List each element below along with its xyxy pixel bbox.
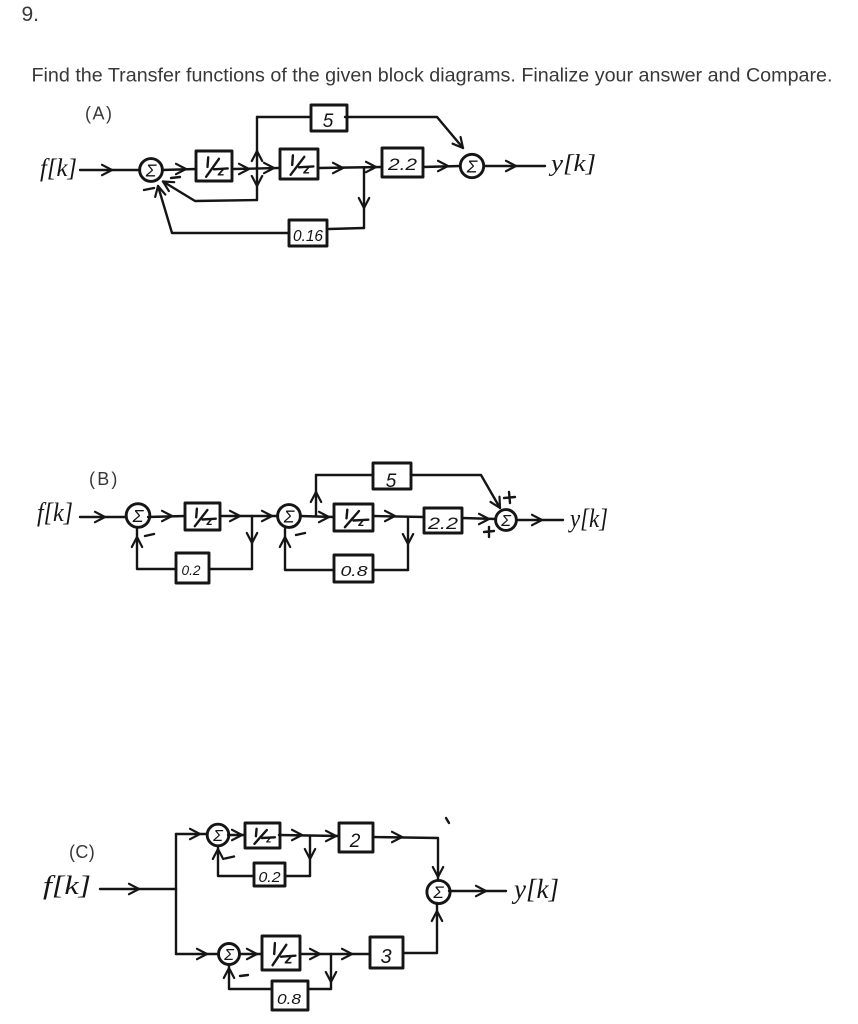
svg-text:z: z [302,160,310,176]
wire block1 to block2 with node A [233,163,279,174]
branch vertical trunk [175,834,177,954]
summing junction B S2 [278,505,301,528]
wire node E to block 0.8 [373,569,408,571]
minus sign 0.16 loop [144,188,154,190]
svg-text:3: 3 [380,946,391,968]
svg-text:Σ: Σ [500,513,512,530]
wire node B down to block 0.16 [329,228,364,229]
small pen mark [446,818,449,823]
wire block 2.2 to sum A2 [423,161,460,171]
block C 3 [370,937,403,968]
summing junction C S mid [427,880,450,903]
svg-text:y[k]: y[k] [549,151,596,177]
branch vertical at node A (up to 5, down to feedback) [252,117,262,200]
block B 0.2 [176,553,209,583]
branch vertical at node D up to 5 [311,475,321,516]
wire branch to block 5 B [316,474,373,476]
svg-text:Σ: Σ [212,828,224,845]
svg-text:Σ: Σ [432,883,444,902]
svg-text:Σ: Σ [466,156,478,176]
svg-text:Find the Transfer functions of: Find the Transfer functions of the given… [32,65,833,87]
wire node C to block 0.2 [209,568,252,570]
wire input to branch point [100,884,176,894]
svg-text:Σ: Σ [145,160,157,180]
block B 1/z #2 [334,504,373,531]
svg-text:(A): (A) [85,104,114,124]
svg-text:z: z [217,162,225,178]
svg-text:0.8: 0.8 [341,563,369,580]
svg-text:z: z [205,514,213,528]
wire trunk bottom to sum C2 [176,949,218,959]
wire sum C2 to block 1/z bottom [240,949,262,959]
wire input to sum B1 [80,512,126,522]
feedback wire short loop to sum A1 [160,177,257,201]
summing junction A S2 [460,154,483,177]
wire sum B3 to output [518,515,563,525]
svg-text:0.16: 0.16 [293,228,323,245]
feedback C top: node F down [305,836,315,876]
summing junction B S3 [496,510,517,531]
svg-text:2: 2 [349,831,361,852]
svg-text:Σ: Σ [223,947,235,964]
block B 1/z #1 [185,503,220,530]
minus sign short loop [171,177,180,178]
svg-text:f[k]: f[k] [40,155,77,182]
wire block to 2 with node F [279,830,339,841]
wire sum B1 to block 1/z #1 [148,511,185,521]
svg-text:5: 5 [323,111,334,132]
svg-text:2.2: 2.2 [387,155,418,174]
svg-text:y[k]: y[k] [511,874,559,904]
wire block 2.2 to sum B3 [462,514,496,524]
wire block 3 up to sum mid bottom [403,903,442,953]
block C 1/z top [245,823,280,848]
feedback wire 0.16 to sum A1 bottom [153,185,289,233]
feedback B loop1: node C down to 0.2 [247,516,257,569]
block B 5 [373,463,411,492]
plus sign top of sum B3 [504,492,515,503]
block A 2.2 [382,148,423,177]
block B 2.2 [424,508,462,533]
wire node G to block 0.8 C [308,988,331,990]
wire block5 to sum A2 top [345,117,467,151]
summing junction B S1 [126,504,150,528]
wire node F to block 0.2 C [285,875,310,877]
svg-text:(C): (C) [69,842,95,862]
feedback wire 0.8 to sum C2 bottom [224,965,272,989]
summing junction C S1 [207,824,229,846]
svg-text:0.8: 0.8 [277,991,302,1008]
block A 1/z #1 [196,151,232,181]
svg-text:z: z [357,515,365,529]
feedback wire 0.8 to sum B2 bottom [280,529,334,570]
minus sign 0.2 loop [145,534,154,536]
feedback wire 0.2 to sum B1 bottom [132,529,176,569]
block C 2 [339,823,373,852]
block C 0.2 [254,863,285,886]
branch vertical at node B down [359,168,369,228]
wire branch top to block 5 [257,116,311,118]
block A 0.16 [289,220,327,246]
wire sum A1 to block 1/z #1 [162,164,196,174]
wire sum C1 to block 1/z top [228,830,245,840]
svg-text:9.: 9. [22,3,40,26]
minus sign C top loop [225,857,234,859]
svg-text:Σ: Σ [132,506,145,526]
block C 1/z bottom [262,936,300,970]
svg-text:0.2: 0.2 [259,869,282,886]
svg-text:z: z [265,834,272,846]
svg-text:2.2: 2.2 [427,514,459,533]
svg-text:f[k]: f[k] [37,498,73,527]
wire block 2 to sum mid top [373,832,443,880]
wire block to 3 with node G [300,949,370,959]
minus sign C bottom loop [240,975,248,976]
svg-text:y[k]: y[k] [567,504,608,533]
svg-text:z: z [284,951,293,968]
svg-text:5: 5 [386,471,397,492]
minus sign 0.8 loop [296,533,305,535]
wire block B2 to 2.2 with node E [373,511,424,521]
plus sign bottom left of sum B3 [484,527,494,537]
svg-text:0.2: 0.2 [182,562,201,578]
wire block2 to block 2.2 with node B [319,162,381,173]
wire sum mid to output [449,886,506,896]
feedback C bottom: node G down [326,954,336,989]
summing junction A S1 [140,159,163,182]
wire input to sum A1 [80,165,140,175]
feedback B loop2: node E down to 0.8 [403,517,413,570]
wire block5 to sum B3 top [411,475,505,511]
block A 1/z #2 [280,149,318,179]
svg-text:(B): (B) [89,469,120,489]
block A 5 [311,105,347,132]
wire sum A2 to output [484,161,545,171]
block C 0.8 [272,981,308,1010]
svg-text:f[k]: f[k] [43,871,91,900]
wire sum B2 to block 1/z #2 with node D [300,512,334,522]
wire block1 to sum B2 with node C [220,511,278,521]
feedback wire 0.2 to sum C1 bottom [213,847,254,876]
summing junction C S2 [219,944,240,965]
block B 0.8 [334,555,373,582]
wire trunk top to sum C1 [176,829,207,839]
svg-text:Σ: Σ [283,506,295,526]
